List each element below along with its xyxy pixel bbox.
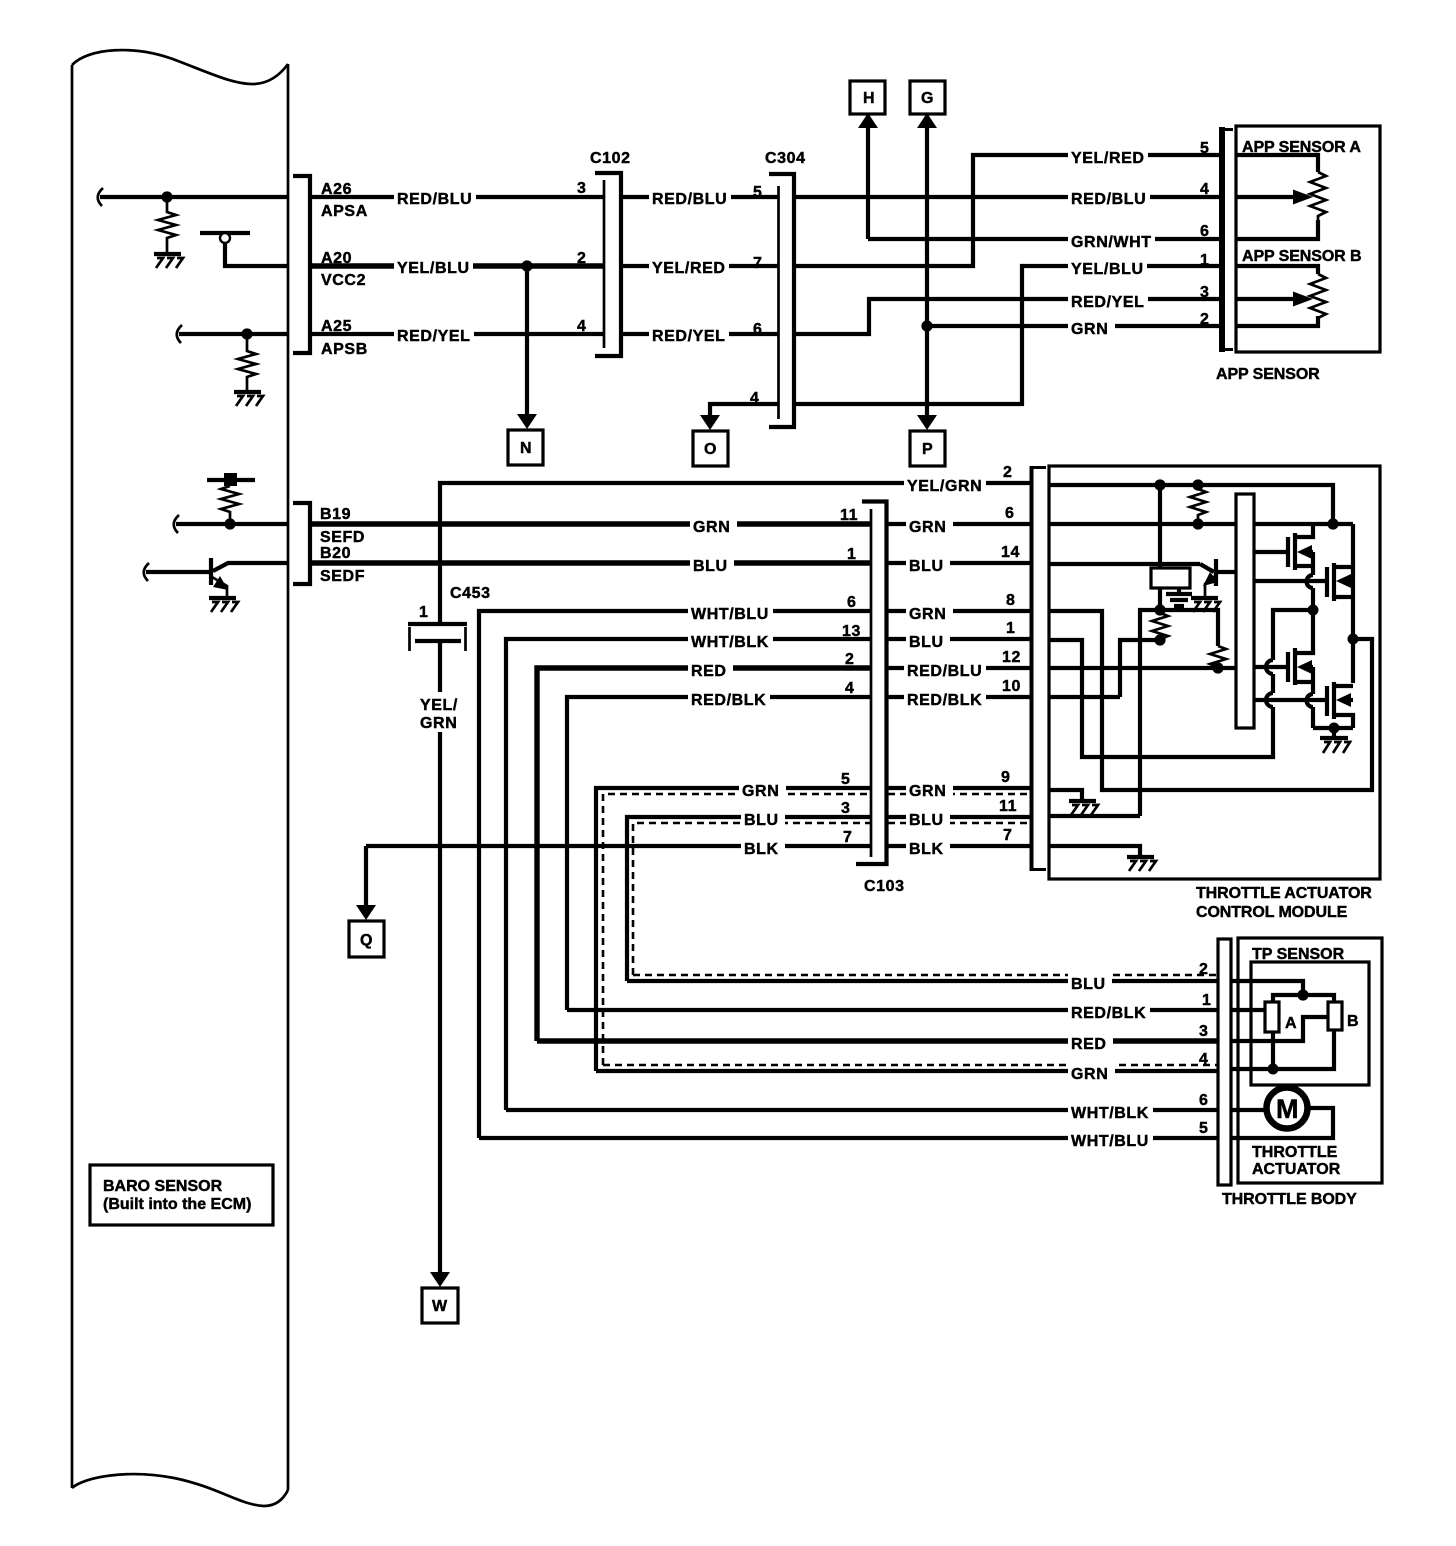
wire RED/BLU (C103 pin 2 to module pin 12) [888, 666, 1031, 670]
wire module pin 7 to ground [1049, 846, 1140, 856]
svg-text:3: 3 [577, 180, 587, 197]
svg-text:10: 10 [1002, 678, 1021, 695]
wire B20 base [146, 570, 211, 574]
wire RED/BLK bottom (to TP sensor pin 1) [567, 1008, 1218, 1012]
svg-text:GRN: GRN [909, 519, 946, 536]
node top rail regulator [1154, 479, 1165, 490]
label YEL/GRN (two lines) [417, 692, 463, 732]
svg-text:THROTTLE ACTUATOR: THROTTLE ACTUATOR [1196, 885, 1372, 902]
resistor (B19 pull-up) [221, 486, 239, 524]
svg-text:RED/BLK: RED/BLK [691, 692, 766, 709]
wire B19 internal [176, 522, 288, 526]
throttle actuator control module box [1049, 466, 1380, 879]
svg-text:6: 6 [1200, 223, 1210, 240]
svg-text:3: 3 [841, 800, 851, 817]
wire BLU (C103 pin 1 to module pin 14) [888, 561, 1031, 565]
MOSFET M3 (low side A) [1254, 610, 1313, 685]
wire YEL/RED (C304 pin 7 up and to APP sensor pin 5) [796, 155, 1222, 266]
svg-text:BLU: BLU [1071, 976, 1106, 993]
wire R2 bottom to pin 10 riser [1120, 640, 1160, 697]
svg-text:13: 13 [842, 623, 861, 640]
label RED/BLU [394, 186, 476, 208]
svg-text:BLU: BLU [909, 558, 944, 575]
svg-text:7: 7 [753, 255, 763, 272]
break mark B19 [174, 515, 179, 533]
connector C304 [769, 174, 794, 427]
ECM right edge [287, 64, 290, 1490]
wire GRN (C103 pin 5 to module pin 9) [888, 786, 1031, 790]
svg-text:5: 5 [1200, 140, 1210, 157]
break mark B20 [144, 563, 149, 581]
svg-text:H: H [863, 90, 875, 107]
MOSFET M1 (high side A) [1254, 524, 1313, 570]
svg-text:1: 1 [1006, 620, 1016, 637]
svg-text:BLU: BLU [909, 812, 944, 829]
svg-text:RED/YEL: RED/YEL [1071, 294, 1145, 311]
svg-text:Q: Q [360, 932, 373, 949]
svg-text:WHT/BLU: WHT/BLU [1071, 1133, 1149, 1150]
svg-text:BLU: BLU [744, 812, 779, 829]
svg-text:M: M [1276, 1094, 1299, 1124]
node bridge ground [1329, 723, 1340, 734]
throttle body connector bar [1218, 939, 1231, 1185]
wire TP pin 6 to motor [1231, 1108, 1266, 1112]
svg-text:P: P [922, 441, 933, 458]
node B19 pull-up junction [224, 518, 235, 529]
svg-text:RED/BLU: RED/BLU [397, 191, 472, 208]
wire to N connector arrow [525, 266, 529, 416]
svg-text:O: O [704, 441, 717, 458]
wire TP pin 3 (B wiper) [1231, 1017, 1328, 1041]
wire R2-R3 tie (pin 11 riser to resistor tops) [1140, 610, 1218, 816]
svg-text:2: 2 [845, 651, 855, 668]
node R2 top [1154, 604, 1165, 615]
ground (A25 resistor) [234, 392, 263, 406]
svg-text:(Built into the ECM): (Built into the ECM) [103, 1196, 251, 1213]
node pin6/bridge [1327, 518, 1338, 529]
svg-text:YEL/: YEL/ [420, 697, 458, 714]
wire BLU shielded (riser to C103 pin 3) [627, 817, 871, 981]
svg-text:BLK: BLK [909, 841, 944, 858]
svg-text:RED/BLU: RED/BLU [1071, 191, 1146, 208]
label GRN [906, 601, 953, 623]
svg-text:SEFD: SEFD [320, 529, 365, 546]
node GRN junction on G-P trunk [921, 320, 932, 331]
svg-text:RED: RED [1071, 1036, 1107, 1053]
wire WHT/BLU (riser to C103 pin 6) [479, 611, 871, 1138]
wire TP pin 2 [1231, 981, 1303, 995]
svg-text:GRN: GRN [1071, 321, 1108, 338]
svg-text:YEL/GRN: YEL/GRN [907, 478, 982, 495]
svg-text:BLK: BLK [744, 841, 779, 858]
ground (H-bridge) [1320, 728, 1350, 753]
wire GRN shielded bottom (to TP sensor pin 4) [596, 1069, 1218, 1073]
ECM left edge [71, 65, 74, 1488]
node top rail R1 [1192, 479, 1203, 490]
wire motor to pin 5 [1231, 1108, 1333, 1138]
svg-text:WHT/BLU: WHT/BLU [691, 606, 769, 623]
label YEL/RED [649, 255, 729, 277]
svg-text:APP SENSOR B: APP SENSOR B [1242, 248, 1361, 265]
wire module pin 12 (to R3 bottom and IC) [1049, 666, 1236, 670]
wire module pin 14 [1049, 562, 1200, 566]
svg-text:CONTROL MODULE: CONTROL MODULE [1196, 904, 1348, 921]
node bridge B midpoint [1348, 634, 1359, 645]
svg-text:BARO SENSOR: BARO SENSOR [103, 1178, 223, 1195]
svg-text:GRN/WHT: GRN/WHT [1071, 234, 1152, 251]
wire module pin 8 (to bridge B terminal) [1049, 611, 1372, 790]
node A26 pull-down junction [161, 191, 172, 202]
label RED/YEL [649, 323, 729, 345]
svg-text:6: 6 [753, 321, 763, 338]
node bridge A midpoint [1308, 605, 1319, 616]
svg-text:THROTTLE BODY: THROTTLE BODY [1222, 1191, 1357, 1208]
svg-text:2: 2 [1200, 311, 1210, 328]
label YEL/BLU [394, 255, 473, 277]
BARO SENSOR label box [90, 1165, 273, 1225]
svg-text:W: W [432, 1298, 448, 1315]
label GRN [1068, 316, 1115, 338]
svg-text:ACTUATOR: ACTUATOR [1252, 1161, 1341, 1178]
wire module pin 10 [1049, 695, 1120, 699]
wire SEFD GRN (B19 to C103 pin 11) [311, 521, 871, 526]
svg-text:GRN: GRN [909, 783, 946, 800]
svg-text:YEL/BLU: YEL/BLU [397, 260, 470, 277]
resistor R2 [1152, 613, 1168, 639]
wire TP pin 4 bottom rail [1231, 1030, 1334, 1069]
earth ground (regulator) [1166, 588, 1192, 606]
connector C103 [856, 502, 887, 865]
wire RED bottom (to TP sensor pin 3) [537, 1038, 1218, 1043]
transistor (module) [1200, 559, 1236, 598]
module connector bar [1030, 466, 1046, 871]
svg-text:RED/BLK: RED/BLK [1071, 1005, 1146, 1022]
svg-text:6: 6 [1005, 505, 1015, 522]
svg-text:7: 7 [843, 829, 853, 846]
label GRN [690, 514, 737, 536]
label GRN [906, 514, 953, 536]
wire GRN/WHT (H branch to APP sensor pin 6) [868, 237, 1222, 241]
label WHT/BLK [688, 629, 773, 651]
svg-text:4: 4 [845, 680, 855, 697]
wire GRN (G-P junction to APP sensor pin 2) [927, 324, 1222, 328]
ground (SEDF transistor) [209, 598, 238, 612]
label BLU [906, 807, 950, 829]
svg-text:C102: C102 [590, 150, 631, 167]
wire BLU (C103 pin 13 to module pin 1) [888, 637, 1031, 641]
label RED/BLU [1068, 186, 1150, 208]
svg-text:RED/BLK: RED/BLK [907, 692, 982, 709]
label BLU [690, 553, 734, 575]
svg-text:5: 5 [753, 184, 763, 201]
wire GRN (C103 pin 6 to module pin 8) [888, 609, 1031, 613]
wire module pin 6 rail [1049, 522, 1353, 526]
svg-text:BLU: BLU [693, 558, 728, 575]
connector box Q [349, 921, 384, 957]
wire M2 source drop [1351, 567, 1355, 639]
wire regulator to R2 [1158, 588, 1162, 610]
connector box P [910, 431, 945, 466]
wire WHT/BLK bottom (to TP sensor pin 6) [506, 1108, 1218, 1112]
wire SEDF BLU (B20 to C103 pin 1) [311, 560, 871, 565]
wire to O connector arrow (C304 pin 4) [710, 404, 778, 417]
svg-text:C453: C453 [450, 585, 491, 602]
svg-text:RED: RED [691, 663, 727, 680]
svg-text:APSA: APSA [321, 203, 368, 220]
resistor R1 [1190, 489, 1206, 520]
node R1 bottom [1192, 518, 1203, 529]
label YEL/BLU [1068, 256, 1147, 278]
svg-text:12: 12 [1002, 649, 1021, 666]
wire RED/BLK (riser to C103 pin 4) [567, 697, 871, 1010]
label GRN [1068, 1061, 1115, 1083]
TP element B [1328, 1002, 1342, 1030]
wire RED/BLK (C103 pin 4 to module pin 10) [888, 695, 1031, 699]
wire bridge B to M4 [1351, 639, 1355, 683]
wire BLU shielded bottom (to TP sensor pin 2) [627, 979, 1218, 983]
ECM torn top edge [72, 50, 288, 84]
ground (module pin 9) [1069, 801, 1098, 815]
node R2 bottom [1154, 634, 1165, 645]
svg-text:2: 2 [1199, 961, 1209, 978]
svg-text:A: A [1285, 1015, 1297, 1032]
svg-text:5: 5 [1199, 1120, 1209, 1137]
svg-text:APSB: APSB [321, 341, 368, 358]
svg-text:2: 2 [577, 250, 587, 267]
svg-text:9: 9 [1001, 769, 1011, 786]
svg-text:3: 3 [1199, 1023, 1209, 1040]
wire to H connector arrow [866, 126, 870, 239]
wire RED/BLU (C304 pin 5 to APP sensor pin 4) [796, 195, 1222, 199]
connector box N [508, 430, 543, 465]
ECM pin bracket A26/A20/A25 [293, 176, 310, 353]
ECM pin bracket B19/B20 [293, 503, 310, 584]
connector box W [422, 1288, 458, 1323]
connector C453 [408, 624, 467, 651]
svg-text:BLU: BLU [909, 634, 944, 651]
svg-text:B19: B19 [320, 506, 351, 523]
wire to Q connector arrow [364, 846, 368, 907]
wire A25 internal [179, 332, 288, 336]
connector box H [850, 81, 885, 114]
motor M (throttle actuator) [1267, 1088, 1308, 1129]
svg-text:C304: C304 [765, 150, 806, 167]
driver IC bar [1236, 494, 1254, 728]
label BLU [906, 629, 950, 651]
svg-text:8: 8 [1006, 592, 1016, 609]
ECM strip (torn-edge body, BARO sensor note) [72, 50, 288, 1506]
wire TP pin 1 (A wiper) [1231, 1008, 1265, 1012]
svg-text:RED/BLU: RED/BLU [907, 663, 982, 680]
svg-text:RED/BLU: RED/BLU [652, 191, 727, 208]
svg-text:N: N [520, 440, 532, 457]
label WHT/BLU [1068, 1128, 1153, 1150]
regulator box [1151, 568, 1190, 588]
node TP bottom rail [1268, 1064, 1279, 1075]
hop (pin1 riser over M3 gate) [1266, 660, 1273, 674]
transistor Q (SEDF driver) [211, 558, 288, 598]
wire M3 source drop with hop over M4 gate [1311, 667, 1315, 694]
connector box O [693, 431, 728, 466]
wire WHT/BLK (riser to C103 pin 13) [506, 639, 871, 1110]
svg-text:1: 1 [419, 604, 429, 621]
wire RED/YEL (C304 pin 6 up to APP sensor pin 3) [796, 299, 1222, 334]
svg-text:SEDF: SEDF [320, 568, 365, 585]
svg-text:14: 14 [1001, 544, 1020, 561]
shield dash GRN [603, 794, 871, 1065]
wire APSA RED/BLU (ECM to C102 pin 3) [311, 195, 603, 199]
label WHT/BLU [688, 601, 773, 623]
svg-text:C103: C103 [864, 878, 905, 895]
resistor (A25 pull-down) [238, 334, 256, 391]
node R3 bottom [1212, 662, 1223, 673]
wire A bottom [1271, 1032, 1275, 1069]
wire bridge source rail [1313, 726, 1353, 730]
wire A20 internal with VCC terminal [225, 243, 288, 266]
wire module pin 1 (to bridge A terminal) [1049, 640, 1273, 757]
power bar B19 [207, 478, 255, 482]
svg-text:B: B [1347, 1013, 1359, 1030]
svg-text:GRN: GRN [420, 715, 457, 732]
svg-text:GRN: GRN [909, 606, 946, 623]
svg-text:G: G [921, 90, 934, 107]
wire regulator feed [1158, 485, 1162, 568]
svg-text:APP SENSOR: APP SENSOR [1216, 366, 1320, 383]
resistor (A26 pull-down) [158, 197, 176, 252]
APP sensor connector bar [1219, 127, 1233, 352]
APP sensor box [1236, 126, 1380, 352]
potentiometer APP sensor A [1236, 155, 1326, 239]
ground (module transistor) [1191, 598, 1220, 612]
potentiometer APP sensor B [1236, 266, 1326, 326]
label RED [1068, 1031, 1113, 1053]
svg-text:7: 7 [1003, 827, 1013, 844]
svg-text:6: 6 [1199, 1092, 1209, 1109]
wire TP top rail [1273, 995, 1334, 1002]
label WHT/BLK [1068, 1100, 1153, 1122]
wire module pin 11 [1049, 814, 1140, 818]
break mark A25 [177, 325, 182, 343]
wire M1 source drop with hop over M2 gate [1311, 552, 1315, 575]
label RED/BLU [649, 186, 731, 208]
ECM torn bottom edge [72, 1474, 288, 1506]
resistor R3 [1210, 646, 1226, 668]
svg-text:1: 1 [1202, 992, 1212, 1009]
wire GRN (C103 pin 11 to module pin 6) [888, 522, 1031, 526]
label GRN [739, 778, 786, 800]
svg-text:5: 5 [841, 771, 851, 788]
label RED/BLK [688, 687, 770, 709]
svg-text:2: 2 [1003, 464, 1013, 481]
svg-text:RED/YEL: RED/YEL [397, 328, 471, 345]
wire YEL/BLU (C304 pin 4 up to APP sensor pin 1) [796, 266, 1222, 404]
svg-text:B20: B20 [320, 545, 351, 562]
wire YEL/RED (C102 to C304 pin 7) [622, 264, 778, 268]
label GRN [906, 778, 953, 800]
connector box G [910, 81, 945, 114]
label YEL/RED [1068, 145, 1148, 167]
shield dash BLU [633, 823, 871, 975]
svg-text:VCC2: VCC2 [321, 272, 366, 289]
svg-text:YEL/RED: YEL/RED [1071, 150, 1145, 167]
svg-text:RED/YEL: RED/YEL [652, 328, 726, 345]
svg-text:GRN: GRN [742, 783, 779, 800]
svg-text:YEL/RED: YEL/RED [652, 260, 726, 277]
wire WHT/BLU bottom (to TP sensor pin 5) [479, 1136, 1218, 1140]
ground (module pin 7) [1127, 857, 1156, 871]
node TP rail [1297, 989, 1308, 1000]
label GRN/WHT [1068, 229, 1155, 251]
svg-text:6: 6 [847, 594, 857, 611]
svg-text:3: 3 [1200, 284, 1210, 301]
wire module top rail (pin 2) [1049, 485, 1333, 524]
label BLK [741, 836, 785, 858]
label BLU [1068, 971, 1112, 993]
node N-branch junction on YEL/BLU [521, 260, 532, 271]
label BLU [741, 807, 785, 829]
wire VCC2 YEL/BLU (ECM to C102 pin 2) [311, 263, 603, 268]
MOSFET M4 (low side B) [1254, 682, 1353, 728]
svg-text:11: 11 [840, 507, 858, 524]
MOSFET M2 (high side B) [1254, 524, 1353, 601]
wire RED/YEL (C102 to C304 pin 6) [622, 332, 778, 336]
power square B19 [224, 473, 237, 486]
label RED/YEL [1068, 289, 1148, 311]
label BLU [906, 553, 950, 575]
wire BLU (C103 pin 3 to module pin 11) [888, 815, 1031, 819]
connector C102 [595, 173, 621, 356]
svg-text:4: 4 [1200, 181, 1210, 198]
VCC circle terminal A20 [220, 233, 230, 243]
label BLK [906, 836, 950, 858]
throttle body box [1238, 938, 1382, 1183]
label YEL/GRN [904, 473, 986, 495]
svg-text:THROTTLE: THROTTLE [1252, 1144, 1338, 1161]
ground (A26 resistor) [154, 254, 183, 268]
wire A26 internal [100, 195, 288, 199]
label RED/BLK [904, 687, 986, 709]
svg-text:11: 11 [999, 798, 1017, 815]
wire BLK (C103 pin 7 to module pin 7) [888, 844, 1031, 848]
label RED/BLK [1068, 1000, 1150, 1022]
wire BLK (Q branch to C103 pin 7) [366, 844, 871, 848]
hop (pin1 riser over M4 gate) [1266, 693, 1273, 707]
label RED [688, 658, 733, 680]
svg-text:4: 4 [577, 318, 587, 335]
TP element A [1265, 1002, 1279, 1032]
svg-text:GRN: GRN [1071, 1066, 1108, 1083]
label RED/YEL [394, 323, 474, 345]
svg-text:1: 1 [1200, 252, 1210, 269]
wire RED/BLU (C102 to C304 pin 5) [622, 195, 778, 199]
svg-text:GRN: GRN [693, 519, 730, 536]
svg-text:WHT/BLK: WHT/BLK [1071, 1105, 1149, 1122]
VCC bar A20 [200, 231, 250, 235]
wire module pin 9 to ground [1049, 790, 1082, 800]
svg-text:1: 1 [847, 546, 857, 563]
wire APSB RED/YEL (ECM to C102 pin 4) [311, 332, 603, 336]
svg-text:4: 4 [1199, 1051, 1209, 1068]
svg-text:YEL/BLU: YEL/BLU [1071, 261, 1144, 278]
break mark A26 [98, 188, 103, 206]
svg-text:WHT/BLK: WHT/BLK [691, 634, 769, 651]
wire YEL/GRN trunk (module pin 2 to C453 to W) [440, 483, 1031, 624]
wire GRN shielded (riser to C103 pin 5) [596, 788, 871, 1071]
TP sensor box [1251, 962, 1369, 1085]
wire G-P trunk [925, 126, 929, 417]
label RED/BLU [904, 658, 986, 680]
wire RED (riser to C103 pin 2) [537, 668, 871, 1041]
